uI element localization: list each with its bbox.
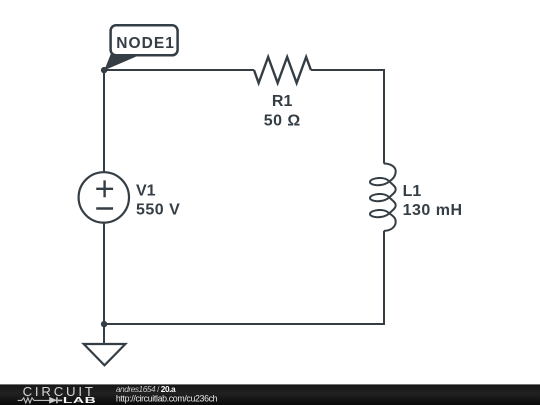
footer bar (0, 384, 540, 405)
wire left lower (103, 223, 105, 324)
NODE1 callout pointer (104, 51, 141, 70)
svg-text:R1: R1 (272, 93, 293, 110)
svg-text:50 Ω: 50 Ω (264, 112, 301, 129)
inductor L1 (370, 164, 396, 231)
voltage source V1 body (79, 172, 129, 222)
svg-text:550 V: 550 V (136, 202, 180, 219)
logo diode (50, 398, 56, 403)
wire top-left segment (104, 69, 254, 71)
svg-text:NODE1: NODE1 (116, 35, 175, 52)
logo diode bar (57, 397, 62, 403)
wire right lower (383, 231, 385, 325)
NODE1 callout box (111, 25, 178, 55)
logo resistor zigzag (18, 398, 50, 403)
resistor R1 (254, 57, 311, 83)
svg-text:L1: L1 (403, 183, 422, 200)
ground symbol (84, 344, 126, 365)
wire top-right segment (311, 69, 385, 71)
wire bottom (104, 323, 385, 325)
junction dot node NODE1 (101, 67, 107, 73)
V1 plus sign (96, 180, 113, 197)
V1 minus sign (96, 207, 113, 209)
ground stem (103, 324, 105, 344)
svg-text:LAB: LAB (63, 396, 96, 405)
svg-text:http://circuitlab.com/cu236ch: http://circuitlab.com/cu236ch (116, 393, 218, 403)
svg-text:130 mH: 130 mH (403, 202, 463, 219)
svg-text:V1: V1 (136, 183, 156, 200)
logo LAB (63, 396, 96, 405)
wire left upper (103, 70, 105, 172)
wire right upper (383, 69, 385, 164)
junction dot ground node (101, 321, 107, 327)
